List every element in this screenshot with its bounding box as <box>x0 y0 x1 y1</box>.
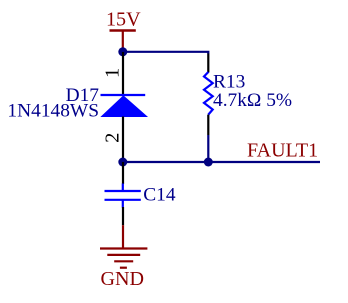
junction node top <box>118 47 127 56</box>
junction node bottom right <box>204 158 213 167</box>
resistor R13 <box>204 54 292 136</box>
svg-text:1N4148WS: 1N4148WS <box>7 100 99 121</box>
anode triangle <box>102 96 147 117</box>
svg-text:15V: 15V <box>106 8 141 30</box>
wire resistor bottom to junction <box>207 135 209 162</box>
bar 4 <box>120 267 127 269</box>
bar 2 <box>107 254 140 256</box>
bottom plate <box>105 199 141 201</box>
bar 1 <box>100 247 147 249</box>
zigzag body <box>204 72 213 115</box>
power port 15V <box>106 8 141 48</box>
top stem <box>122 184 124 191</box>
bottom stem <box>122 200 124 207</box>
svg-text:FAULT1: FAULT1 <box>247 140 318 162</box>
stem <box>122 225 124 248</box>
capacitor C14 <box>105 162 176 225</box>
wire bottom horizontal <box>123 161 320 163</box>
svg-text:C14: C14 <box>143 185 176 206</box>
svg-text:2: 2 <box>101 133 123 143</box>
pin 2 (bottom) <box>207 115 209 135</box>
pin 1 <box>122 52 124 95</box>
svg-text:4.7kΩ 5%: 4.7kΩ 5% <box>213 90 292 111</box>
pin 1 <box>122 162 124 184</box>
pin 2 <box>122 207 124 225</box>
wire top horizontal to resistor column <box>123 52 209 54</box>
svg-text:1: 1 <box>102 68 124 78</box>
power port GND <box>100 225 147 290</box>
diode D17 <box>7 52 146 162</box>
cathode bar <box>101 94 146 96</box>
pin 2 <box>122 117 124 163</box>
junction node bottom left <box>118 158 127 167</box>
svg-text:GND: GND <box>101 268 145 290</box>
top plate <box>105 190 141 192</box>
bar 3 <box>114 260 133 262</box>
pin 1 (top) <box>207 54 209 73</box>
